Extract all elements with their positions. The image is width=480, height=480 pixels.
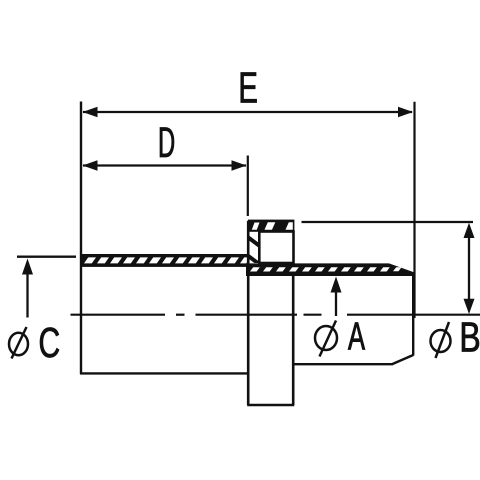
cylinder bottom edge bbox=[80, 372, 249, 374]
thread band on right section with taper bbox=[246, 263, 414, 276]
dimension E bbox=[83, 72, 414, 117]
phi B dimension: extension line, double arrow, label bbox=[302, 222, 479, 358]
D right extension line bbox=[247, 156, 249, 217]
serration band on cylinder top bbox=[80, 254, 249, 267]
phi C dimension: tick, arrow, label bbox=[9, 257, 76, 359]
hex left edge vertical bbox=[247, 221, 250, 405]
dimension D bbox=[83, 127, 247, 170]
hex right edge vertical below thread band bbox=[292, 275, 295, 405]
right section bottom edge, chamfer, right edge bbox=[293, 272, 413, 364]
hex stub on top: hatched left+top strips bbox=[245, 220, 297, 267]
E right extension line bbox=[413, 102, 415, 318]
cylinder left edge + E left extension line bbox=[80, 102, 82, 375]
centerline (dash-dot) bbox=[71, 314, 480, 316]
hex stub inner square bbox=[259, 232, 293, 264]
hex bottom tab bottom edge bbox=[247, 404, 294, 407]
phi A dimension: arrow up to thread band, label bbox=[315, 277, 365, 357]
body outline: main socket cylinder bbox=[80, 102, 249, 375]
